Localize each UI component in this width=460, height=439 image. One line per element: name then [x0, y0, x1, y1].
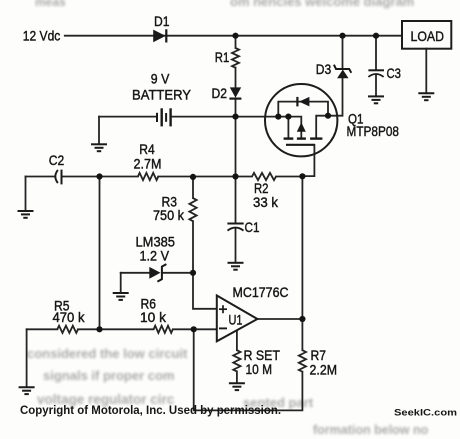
svg-text:BATTERY: BATTERY [132, 86, 192, 102]
svg-text:R1: R1 [215, 49, 230, 65]
svg-text:1.2 V: 1.2 V [140, 248, 170, 264]
svg-text:10 M: 10 M [246, 361, 273, 377]
svg-text:C3: C3 [387, 65, 402, 81]
svg-text:signals if proper com: signals if proper com [43, 368, 174, 383]
svg-text:D1: D1 [154, 13, 170, 29]
svg-text:meas: meas [35, 0, 66, 9]
svg-text:33 k: 33 k [253, 194, 279, 210]
svg-text:C1: C1 [245, 219, 260, 235]
svg-text:470 k: 470 k [53, 309, 86, 325]
svg-text:D2: D2 [212, 85, 228, 101]
svg-text:SeekIC.com: SeekIC.com [394, 408, 457, 419]
svg-text:2.7M: 2.7M [134, 156, 162, 172]
svg-text:750 k: 750 k [153, 207, 185, 223]
svg-text:D3: D3 [316, 61, 332, 77]
svg-text:R4: R4 [139, 141, 155, 157]
svg-text:10 k: 10 k [140, 309, 167, 325]
svg-text:formation below no: formation below no [313, 423, 429, 437]
svg-text:Copyright of Motorola, Inc. Us: Copyright of Motorola, Inc. Used by perm… [20, 403, 281, 417]
svg-text:considered the low circuit: considered the low circuit [27, 346, 188, 361]
svg-text:MTP8P08: MTP8P08 [347, 123, 400, 139]
svg-text:om nencies welcome diagram: om nencies welcome diagram [230, 0, 414, 9]
svg-text:2.2M: 2.2M [310, 362, 338, 378]
svg-text:U1: U1 [229, 312, 243, 328]
svg-text:12 Vdc: 12 Vdc [23, 27, 61, 43]
svg-text:9 V: 9 V [151, 71, 170, 87]
svg-text:C2: C2 [49, 152, 65, 168]
svg-text:MC1776C: MC1776C [233, 284, 289, 300]
svg-text:LOAD: LOAD [411, 28, 445, 44]
